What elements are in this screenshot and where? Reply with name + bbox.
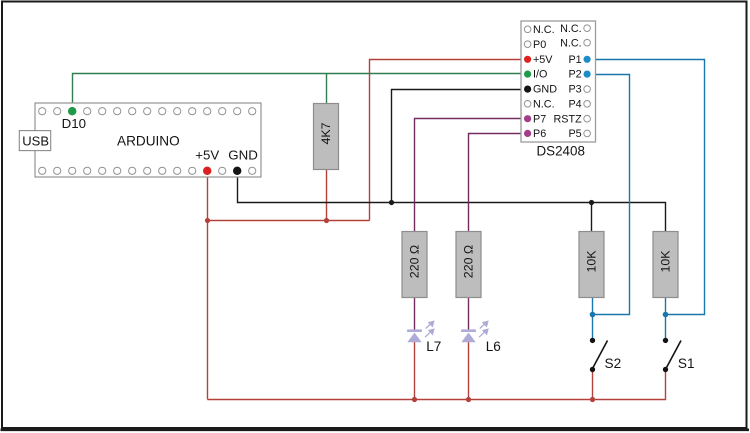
wire red LED L6 stub: [468, 342, 470, 400]
switch S2: [590, 338, 621, 373]
wire red horizontal y220: [208, 220, 370, 222]
resistor 220 ohm (L6): [456, 232, 481, 298]
wire red LED L7 stub: [414, 342, 416, 400]
svg-text:L7: L7: [426, 339, 441, 354]
svg-text:220 Ω: 220 Ω: [462, 245, 476, 278]
wire red bottom bus: [208, 370, 666, 400]
pin +5V ds2408: [524, 54, 553, 66]
svg-text:S2: S2: [605, 356, 622, 371]
svg-text:P5: P5: [568, 128, 581, 140]
wire blue 10K left bottom to S2: [592, 296, 594, 340]
USB connector: [19, 131, 50, 151]
resistor 220 ohm (L7): [402, 232, 427, 298]
svg-text:GND: GND: [228, 148, 258, 163]
resistor 10K right: [653, 232, 678, 298]
junction black GND vertical: [389, 200, 394, 205]
svg-text:P4: P4: [568, 98, 581, 110]
svg-text:10K: 10K: [585, 250, 599, 273]
LED L6: [461, 321, 501, 354]
resistor 4K7: [314, 104, 339, 170]
junction blue left: [590, 312, 596, 318]
svg-text:RSTZ: RSTZ: [553, 113, 582, 125]
pin P1: [568, 54, 590, 66]
pin P7: [524, 113, 546, 125]
svg-text:P7: P7: [533, 113, 546, 125]
LED L7: [407, 321, 441, 354]
svg-text:P0: P0: [533, 39, 546, 51]
svg-text:P2: P2: [568, 69, 581, 81]
wire blue P1: [587, 60, 704, 315]
junction red at +5V column y220: [205, 218, 210, 223]
pin I/O: [524, 69, 547, 81]
svg-text:USB: USB: [22, 134, 49, 149]
pin GND ds2408: [524, 84, 557, 96]
svg-text:N.C.: N.C.: [533, 24, 555, 36]
svg-text:I/O: I/O: [533, 69, 547, 81]
svg-text:D10: D10: [62, 116, 86, 131]
wire red +5V vertical from Arduino: [207, 171, 209, 400]
svg-text:P1: P1: [568, 54, 581, 66]
junction red L7 on bus: [412, 397, 417, 402]
wire red 4K7 bottom stub: [326, 167, 328, 221]
svg-text:P3: P3: [568, 84, 581, 96]
svg-text:L6: L6: [486, 339, 501, 354]
svg-text:+5V: +5V: [195, 148, 219, 163]
svg-text:ARDUINO: ARDUINO: [117, 134, 180, 149]
svg-text:4K7: 4K7: [319, 122, 333, 144]
pin GND arduino: [228, 148, 258, 176]
wire green stub to 4K7 top: [326, 74, 328, 107]
junction red 4K7 bottom: [324, 218, 329, 223]
svg-text:DS2408: DS2408: [537, 143, 585, 158]
junction blue right: [663, 312, 669, 318]
wire purple P6 to L6: [469, 134, 528, 330]
IC DS2408 body: [521, 21, 596, 158]
svg-text:S1: S1: [678, 356, 695, 371]
svg-text:+5V: +5V: [533, 54, 553, 66]
svg-text:N.C.: N.C.: [560, 23, 582, 35]
resistor 10K left: [579, 232, 604, 298]
wire red S2 bottom stub: [592, 370, 594, 400]
pin D10: [62, 107, 86, 131]
wire green D10 to I/O net: [73, 74, 528, 112]
svg-text:220 Ω: 220 Ω: [407, 245, 421, 278]
wire red +5V from DS2408: [370, 60, 528, 221]
svg-text:N.C.: N.C.: [533, 98, 555, 110]
junction red L6 on bus: [466, 397, 471, 402]
svg-text:GND: GND: [533, 84, 557, 96]
wire black DS2408 GND: [392, 90, 528, 203]
svg-text:10K: 10K: [659, 250, 673, 273]
svg-text:P6: P6: [533, 128, 546, 140]
junction black 10K left: [589, 200, 594, 205]
pin P6: [524, 128, 546, 140]
svg-text:N.C.: N.C.: [560, 37, 582, 49]
wire blue P2: [587, 75, 629, 315]
wire black 10K left stub: [591, 203, 593, 235]
wire black GND from Arduino bus: [238, 171, 666, 234]
IC ARDUINO body: [35, 103, 261, 177]
pin P2: [568, 69, 590, 81]
pin +5V arduino: [195, 148, 219, 176]
junction red S2 on bus: [590, 397, 595, 402]
wire purple P7 to L7: [415, 119, 528, 330]
switch S1: [663, 338, 695, 373]
wire blue 10K right bottom to S1: [665, 296, 667, 340]
